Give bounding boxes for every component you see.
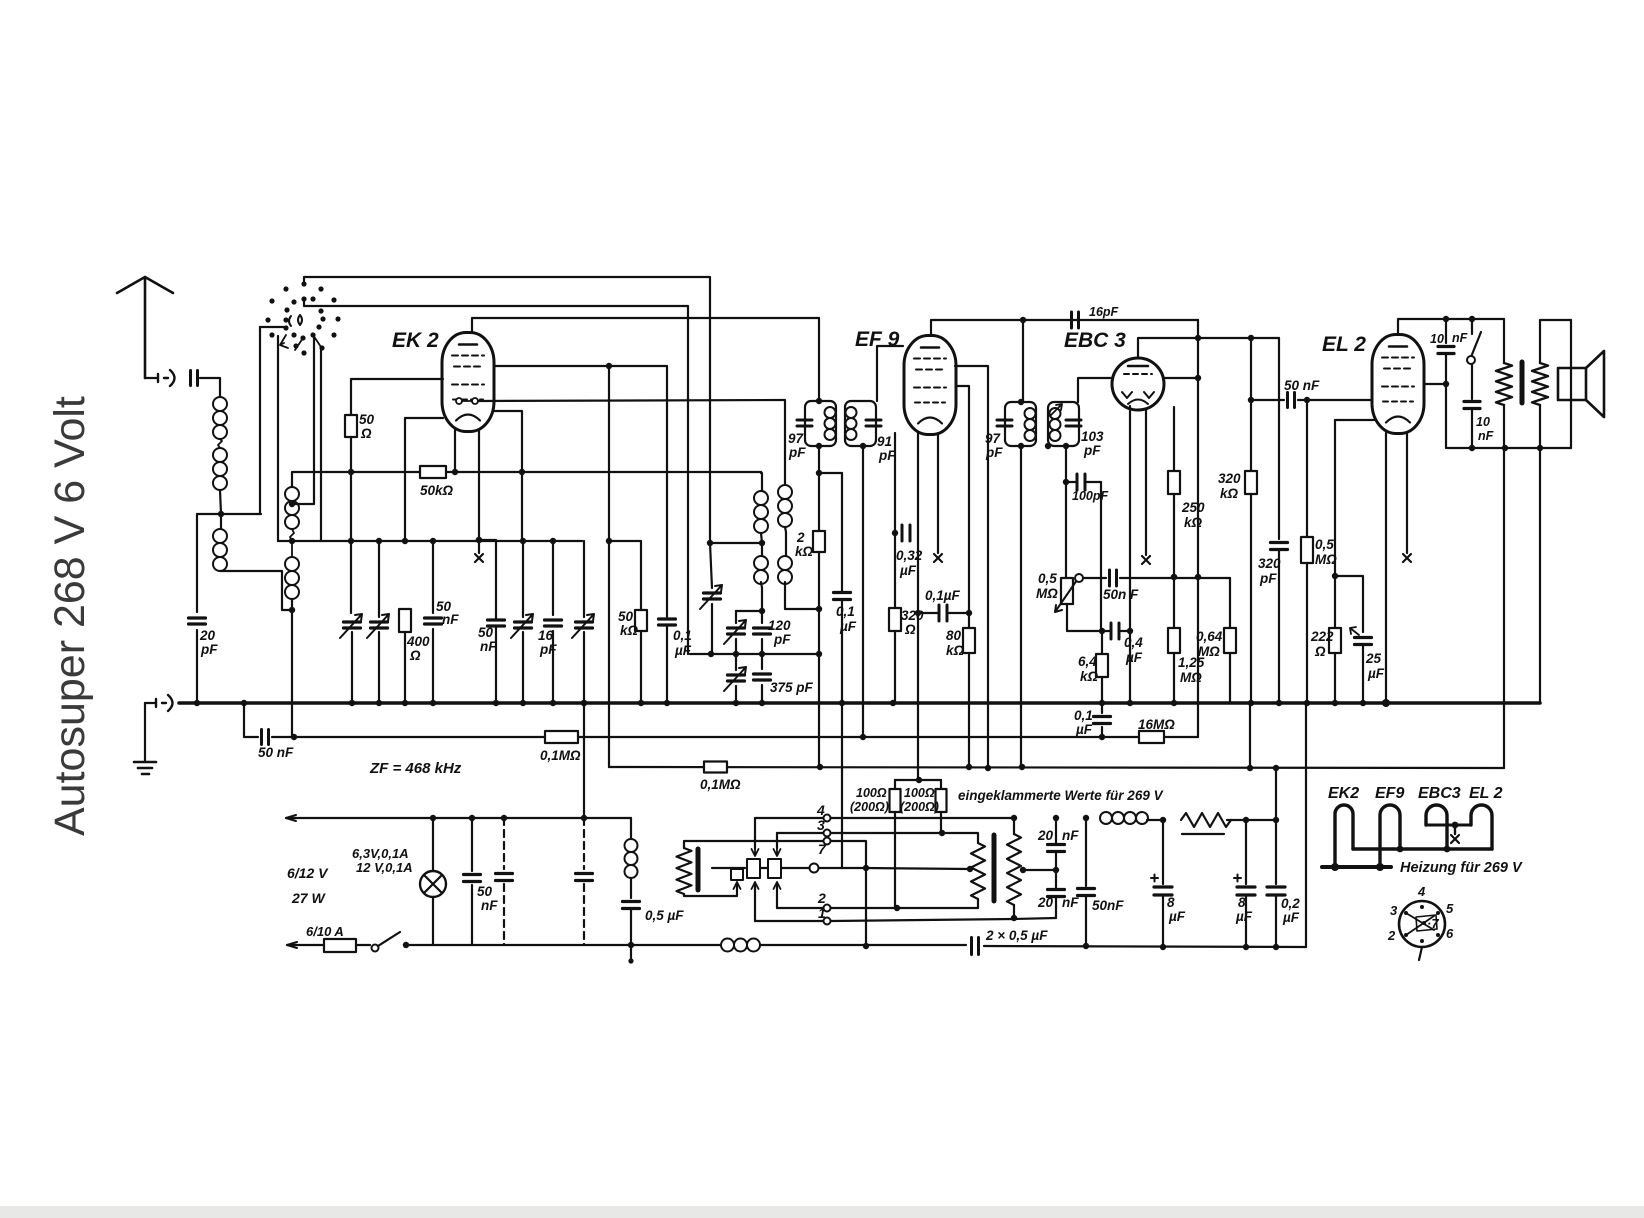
tube EF9 internals	[914, 348, 946, 424]
junction coil/antenna node	[218, 511, 224, 517]
vibrator transformer core	[696, 849, 701, 890]
tuning dial dot cluster	[265, 281, 340, 355]
tube socket stem	[1419, 947, 1422, 960]
svg-text:Autosuper 268 V 6 Volt: Autosuper 268 V 6 Volt	[46, 396, 94, 836]
wire EBC3 right to detector line	[1163, 377, 1198, 379]
svg-text:(200Ω): (200Ω)	[900, 800, 939, 814]
wire EK2 filament link	[462, 400, 472, 402]
junction rail	[664, 700, 670, 706]
resistor 50Ω	[345, 415, 357, 437]
junction 100ohm bridge	[916, 777, 922, 783]
svg-text:pF: pF	[1259, 571, 1277, 586]
svg-text:97: 97	[985, 431, 1002, 446]
junction L4 bottom	[289, 607, 295, 613]
resistor 320Ω	[889, 608, 901, 631]
wire to 25uF	[1335, 576, 1363, 632]
wire trimmer4 to rail and power line	[583, 632, 585, 818]
svg-text:50: 50	[359, 412, 375, 427]
coil L3 RF coil	[285, 487, 299, 529]
wire to IF2 primary top	[1022, 320, 1024, 402]
x-mark EF9 heater	[934, 554, 942, 562]
tube EK2 filament pins	[456, 398, 478, 404]
junction IF1 primary bottom	[816, 443, 822, 449]
junction 80k top	[966, 610, 972, 616]
junction rail	[430, 700, 436, 706]
wire 0.1uF to rail	[666, 626, 668, 703]
junction anode 10nF	[1443, 381, 1449, 387]
junction 0.1uF on rail	[839, 700, 845, 706]
svg-text:µF: µF	[839, 619, 857, 634]
wire 25uF to rail	[1362, 645, 1364, 703]
resistor 50kΩ osc	[635, 610, 647, 631]
wire 0.1uF through rail to vibrator pin7	[841, 600, 843, 868]
capacitor 375pF	[754, 674, 771, 680]
capacitor 0.4uF	[1111, 623, 1119, 639]
svg-text:100Ω: 100Ω	[904, 786, 935, 800]
wire AVC line	[272, 736, 545, 738]
wire rail to 50nF AVC	[244, 703, 258, 737]
wire 16pF to rail	[552, 631, 554, 703]
junction EL2 cathode rail	[1382, 699, 1390, 707]
svg-text:20: 20	[1037, 828, 1054, 843]
svg-text:50nF: 50nF	[1092, 898, 1124, 913]
wire node to 375pF	[761, 654, 763, 669]
wire to 50nF power	[471, 818, 473, 871]
junction osc tap	[759, 540, 765, 546]
capacitor C var 1	[344, 622, 361, 628]
junction 8uF b	[1243, 817, 1249, 823]
svg-text:3: 3	[1390, 903, 1398, 918]
wire 10nF to bottom line	[1445, 354, 1447, 448]
wire 0.4uF to cathode line	[1121, 630, 1130, 632]
trimmer arrow C var osc 2	[572, 614, 594, 638]
junction	[759, 651, 765, 657]
coil IF2 primary	[1025, 408, 1036, 441]
capacitor C trim osc b	[728, 628, 745, 634]
heater loop EK2	[1335, 805, 1353, 867]
wire EL2 anode line	[1425, 383, 1446, 385]
junction trimmer4 rail	[581, 700, 587, 706]
junction B+ rail drop	[1247, 765, 1253, 771]
junction coil to 120pF node	[759, 608, 765, 614]
trimmer arrow C trim osc b	[724, 620, 746, 644]
wire contact a to terminal1 line	[754, 884, 756, 921]
wire 50nF power to line B	[471, 885, 473, 945]
vibrator contact box 3	[731, 869, 743, 880]
svg-text:µF: µF	[899, 563, 917, 578]
wire 400ohm to rail	[404, 632, 406, 703]
junction	[1273, 944, 1279, 950]
wire tuning gang to y541 bus	[277, 336, 279, 541]
capacitor 0.5uF	[623, 902, 640, 909]
junction	[348, 538, 354, 544]
coil filter choke	[1100, 812, 1148, 824]
svg-text:EL 2: EL 2	[1469, 785, 1503, 802]
junction 0.1uF AF	[1099, 734, 1105, 740]
wire 8uF a to line B	[1162, 895, 1164, 947]
svg-text:0,1MΩ: 0,1MΩ	[700, 777, 741, 792]
wire secondary top	[1540, 320, 1571, 363]
junction 1.25M rail	[1171, 700, 1177, 706]
svg-text:µF: µF	[1168, 909, 1186, 924]
resistor 100Ω (200Ω) b	[936, 789, 947, 812]
svg-text:EBC3: EBC3	[1418, 785, 1461, 802]
wire trimmer b to node	[735, 639, 737, 654]
junction 320pF rail	[1276, 700, 1282, 706]
terminal pot wiper	[1075, 574, 1083, 582]
wire coil L1 bottom to node	[220, 490, 221, 514]
wire node to 0.1uF branch	[819, 472, 842, 474]
wire 0.2uF to line B	[1275, 895, 1277, 947]
resistor 1.25MΩ	[1168, 628, 1180, 653]
svg-text:MΩ: MΩ	[1036, 586, 1058, 601]
wire line4 to secondary b top	[1013, 818, 1015, 834]
junction 50nF B	[1083, 943, 1089, 949]
junction	[816, 651, 822, 657]
svg-text:nF: nF	[442, 612, 459, 627]
wire switch stub	[1471, 319, 1473, 334]
wire terminal3 to contact b	[776, 833, 778, 848]
junction 50nF left	[1248, 397, 1254, 403]
resistor 0.1MΩ B+	[704, 762, 727, 773]
wire primary bottom to contact c	[684, 884, 737, 896]
capacitor 50nF B	[1078, 889, 1095, 896]
wire gang twin line b	[320, 348, 322, 541]
junction IF2 primary top	[1018, 399, 1024, 405]
heater loop EL2	[1471, 805, 1492, 849]
tuning wiper arrow a	[280, 335, 288, 348]
wire shield dashed a lower	[503, 884, 505, 945]
plug connector antenna	[158, 370, 175, 386]
wire tuning gang to y514 node	[259, 327, 261, 514]
wire terminal2 left segment	[777, 907, 823, 909]
wire IF1 secondary top to EF9 grid	[877, 346, 903, 401]
resistor 222Ω	[1329, 628, 1341, 653]
svg-text:eingeklammerte Werte für 269 V: eingeklammerte Werte für 269 V	[958, 788, 1164, 803]
trimmer arrow IF2	[1050, 404, 1062, 416]
svg-text:pF: pF	[200, 642, 218, 657]
wire pin7 line	[819, 867, 866, 869]
svg-text:nF: nF	[1478, 429, 1494, 443]
capacitor 50nF AF	[1110, 570, 1117, 586]
junction 6.4k rail	[1099, 700, 1105, 706]
junction	[581, 815, 587, 821]
capacitor 97pF (in IF2 primary)	[997, 420, 1012, 426]
wire node to 120pF	[761, 611, 763, 623]
svg-text:50 nF: 50 nF	[258, 745, 294, 760]
wire to secondary tap	[866, 868, 970, 869]
svg-text:µF: µF	[674, 643, 692, 658]
wire 50k to rail	[640, 631, 642, 703]
capacitor 20nF a	[1048, 845, 1065, 852]
junction 8uF a	[1160, 817, 1166, 823]
wire EF9 screen to 0.1uF node	[957, 386, 969, 613]
tube socket key box	[1416, 915, 1437, 931]
svg-text:50: 50	[618, 609, 634, 624]
junction rail	[376, 700, 382, 706]
scanner gray bar	[0, 1206, 1644, 1218]
wire terminal4 left segment	[755, 817, 823, 819]
junction	[1160, 944, 1166, 950]
power line B end tick	[287, 942, 297, 948]
wire 50nF to rail	[432, 629, 434, 703]
terminal tone switch	[1467, 356, 1475, 364]
IF transformer 2 secondary box	[1048, 402, 1079, 446]
wire EL2 heater stub	[1406, 433, 1408, 553]
wire EK2 g4 to 0.1uF	[494, 366, 667, 617]
svg-text:Ω: Ω	[360, 426, 372, 441]
wire to 2k resistor	[818, 473, 820, 531]
capacitor 50nF coupling	[1288, 393, 1295, 408]
wire line B return to rail	[1305, 703, 1307, 947]
svg-text:100Ω: 100Ω	[856, 786, 887, 800]
junction 0.5uF line B	[628, 942, 634, 948]
IF transformer 1 secondary box	[845, 401, 876, 446]
capacitor 0.1uF osc	[659, 619, 676, 625]
capacitor 50nF cathode	[488, 620, 505, 626]
junction 80k on B+	[966, 764, 972, 770]
coil L1 antenna coil	[213, 397, 227, 439]
wire bus to trimmer2	[378, 541, 380, 617]
capacitor 120pF	[754, 628, 771, 634]
terminal 3	[824, 830, 831, 837]
junction screen bypass	[915, 610, 921, 616]
svg-text:10: 10	[1430, 332, 1444, 346]
svg-text:0,4: 0,4	[1124, 635, 1143, 650]
tube socket internal wiring	[1406, 913, 1434, 935]
wire choke to node	[1147, 819, 1163, 821]
fuse 6/10A	[324, 939, 356, 952]
wire node line y514	[197, 513, 261, 515]
junction rail	[638, 700, 644, 706]
resistor 80kΩ	[963, 628, 975, 653]
wire EK2 filament line to osc coil	[478, 400, 785, 485]
junction	[1331, 863, 1339, 871]
wire line B to buffer cap	[760, 944, 966, 946]
capacitor 50nF power	[464, 875, 481, 882]
junction EF9 g3 on B+	[985, 765, 991, 771]
svg-text:µF: µF	[1235, 909, 1253, 924]
wire bus to coil L3	[291, 472, 293, 487]
wire trimmer c to rail	[735, 686, 737, 703]
wire between contacts	[760, 867, 768, 869]
wire heater bus 269V	[1353, 847, 1492, 850]
wire terminal2 to secondary bottom	[831, 899, 978, 908]
junction 0.32uF left	[892, 530, 898, 536]
wire EK2 top cap to IF1 primary	[472, 318, 819, 333]
wire gang link	[260, 326, 286, 328]
svg-text:0,5: 0,5	[1038, 571, 1057, 586]
wire to 20pF	[196, 514, 198, 612]
wire bus to 16pF	[552, 541, 554, 615]
wire pot bottom to 0.4uF	[1067, 604, 1102, 631]
junction tone switch top	[1469, 316, 1475, 322]
junction AVC takeoff	[241, 700, 247, 706]
svg-text:12 V,0,1A: 12 V,0,1A	[356, 860, 413, 875]
junction 20nF mid	[1053, 867, 1059, 873]
x-mark EK2 heater	[475, 554, 483, 562]
switch tone	[1471, 332, 1481, 357]
wire 0.5uF to line B	[630, 909, 632, 962]
svg-text:pF: pF	[773, 632, 791, 647]
wire 20pF to chassis rail	[196, 630, 198, 703]
svg-text:pF: pF	[985, 445, 1003, 460]
wire trimmer1 to rail	[351, 632, 353, 703]
tube EBC3 envelope	[1112, 358, 1164, 410]
wire B+ to primary	[1503, 319, 1505, 363]
capacitor 0.1uF screen	[939, 605, 947, 621]
junction 50nF node	[1195, 574, 1201, 580]
wire oscillator node y654	[690, 653, 819, 655]
svg-text:pF: pF	[1083, 443, 1101, 458]
svg-text:(200Ω): (200Ω)	[850, 800, 889, 814]
wire 320pF to rail	[1278, 550, 1280, 703]
wire top bus 1 to oscillator tap	[304, 277, 710, 543]
svg-text:kΩ: kΩ	[1220, 486, 1239, 501]
svg-text:EK2: EK2	[1328, 785, 1359, 802]
junction rail	[402, 700, 408, 706]
wire line A to choke	[630, 818, 632, 839]
wire gang twin line a	[292, 335, 314, 504]
svg-text:EF9: EF9	[1375, 785, 1404, 802]
junction bias	[1332, 573, 1338, 579]
coil IF1 primary	[825, 407, 836, 440]
svg-text:nF: nF	[1062, 828, 1079, 843]
svg-text:pF: pF	[788, 445, 806, 460]
trimmer arrow C var 1	[340, 614, 362, 638]
electrolytic plus a	[1151, 875, 1158, 882]
svg-text:6/10 A: 6/10 A	[306, 924, 344, 939]
wire EBC3 cathode to rail	[1129, 406, 1131, 703]
wire 50nF to EL2 grid	[1298, 399, 1372, 401]
junction rail	[581, 700, 587, 706]
junction	[1537, 445, 1543, 451]
junction B+ feed	[1273, 765, 1279, 771]
wire terminal1 line to secondary bottom	[831, 918, 1056, 921]
junction	[1397, 846, 1404, 853]
svg-text:16pF: 16pF	[1089, 305, 1119, 319]
capacitor 91pF (in IF1 secondary)	[866, 420, 881, 426]
wire to 0.1uF	[841, 473, 843, 592]
wire cathode to 320ohm	[894, 533, 896, 608]
wire EF9 top cap line with 16pF	[931, 320, 1198, 336]
wire EBC3 grid to IF2 secondary top	[1078, 378, 1113, 402]
wire screen bus right	[446, 472, 761, 473]
wire EK2 osc grid to padder bus	[494, 411, 522, 541]
svg-text:EBC 3: EBC 3	[1064, 329, 1126, 352]
svg-text:Ω: Ω	[904, 622, 916, 637]
tuning wiper arrow b	[295, 335, 321, 350]
junction 16pF to EBC3	[1195, 335, 1201, 341]
wire primary tap to contacts	[712, 867, 745, 869]
wire	[940, 780, 942, 789]
wire L5 link	[761, 533, 762, 556]
wire to 222ohm	[1334, 576, 1336, 628]
wire to 0.64M	[1229, 578, 1231, 628]
junction 2k top	[816, 470, 822, 476]
svg-text:320: 320	[901, 608, 924, 623]
wire bus to trimmer4	[583, 541, 585, 617]
wire to 50nF power B	[1085, 818, 1087, 886]
vibrator contact box 2	[768, 859, 781, 878]
junction L4 on AVC	[291, 734, 297, 740]
capacitor 25uF electrolytic	[1355, 638, 1372, 645]
wire osc coil link	[785, 527, 786, 556]
junction	[733, 651, 739, 657]
resistor 400Ω	[399, 609, 411, 632]
wire EBC3 heater stub	[1145, 409, 1147, 555]
tube EBC3 internals	[1122, 366, 1154, 404]
wire 80k to B+ line	[968, 653, 970, 767]
wire to 8uF b	[1245, 820, 1247, 884]
junction IF2 feed	[1020, 317, 1026, 323]
capacitor 50nF AVC	[262, 730, 269, 745]
svg-text:2: 2	[796, 530, 805, 545]
junction	[1171, 574, 1177, 580]
svg-text:kΩ: kΩ	[1184, 515, 1203, 530]
wire terminal4 to contact a	[754, 818, 756, 848]
junction osc line	[606, 538, 612, 544]
junction IF2 primary bottom	[1018, 443, 1024, 449]
svg-text:0,1: 0,1	[673, 628, 692, 643]
wire	[1102, 630, 1109, 632]
capacitor 8uF b	[1237, 887, 1255, 895]
svg-text:375 pF: 375 pF	[770, 680, 814, 695]
junction	[348, 469, 354, 475]
wire to ground	[144, 703, 146, 762]
capacitor 16pF	[1072, 312, 1079, 328]
wire choke to 0.5uF	[630, 878, 632, 898]
junction	[1011, 815, 1017, 821]
coil L1b antenna coil lower	[213, 448, 227, 490]
wire to lamp	[432, 818, 434, 871]
wire chassis ground rail	[179, 701, 1540, 705]
svg-text:50: 50	[478, 625, 494, 640]
svg-text:0,1: 0,1	[1074, 708, 1093, 723]
terminal switch	[372, 945, 379, 952]
junction heater mid	[1452, 822, 1459, 829]
wire EK2 grid to 50ohm resistor	[351, 379, 443, 415]
electrolytic plus b	[1234, 875, 1241, 882]
wire to 8uF a	[1162, 820, 1164, 884]
coil IF2 secondary	[1050, 408, 1061, 441]
junction padder	[520, 538, 526, 544]
junction IF1 primary top	[816, 398, 822, 404]
x-mark EBC3 heater	[1142, 556, 1150, 564]
tube EK2 internals	[452, 345, 484, 421]
junction 10nF top	[1443, 316, 1449, 322]
wire resistor to node	[1227, 819, 1276, 821]
damping resistor	[1181, 813, 1231, 834]
svg-text:222: 222	[1310, 629, 1334, 644]
tube EL2 envelope	[1372, 335, 1424, 434]
tube EF9 envelope	[904, 336, 956, 435]
wire to 0.2uF	[1275, 820, 1277, 884]
wire line B right	[984, 946, 1306, 947]
wire to 320pF	[1278, 338, 1280, 539]
capacitor 10nF tone	[1464, 402, 1480, 409]
wire coil link	[218, 439, 222, 448]
svg-text:50kΩ: 50kΩ	[420, 483, 454, 498]
wire IF2 secondary bottom to 100pF	[1065, 446, 1067, 482]
x-mark heater chassis	[1451, 835, 1459, 843]
junction rail	[550, 700, 556, 706]
svg-text:kΩ: kΩ	[620, 623, 639, 638]
capacitor 103pF (in IF2 secondary)	[1066, 420, 1081, 426]
svg-text:20: 20	[199, 628, 216, 643]
wire 50nF to rail	[495, 627, 497, 703]
wire IF1 primary bottom to 2k node	[818, 446, 820, 473]
